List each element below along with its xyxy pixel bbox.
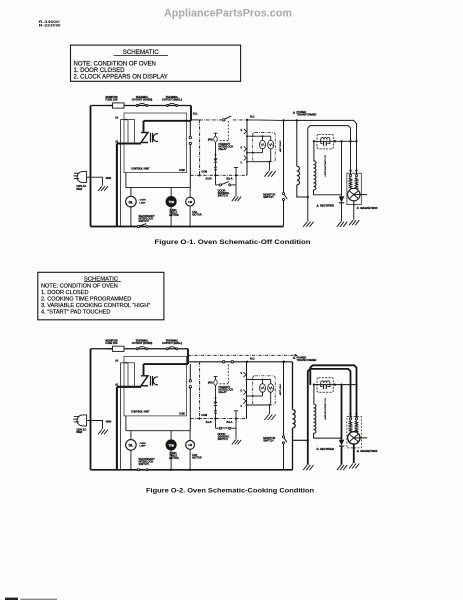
- label MAGNETRON (O-1): [356, 206, 359, 209]
- ground chassis at plug (O-1): [98, 186, 102, 191]
- wire contact column drop (O-1): [246, 120, 248, 175]
- svg-text:CONTROL UNIT: CONTROL UNIT: [131, 167, 150, 170]
- wire bold A1 line (O-1): [117, 142, 141, 144]
- wire lamp ground stem (O-2): [269, 405, 271, 414]
- rectifier diode CR1 (O-1): [341, 141, 343, 196]
- transformer T1 secondary winding (O-2): [313, 385, 315, 405]
- svg-text:4. “START” PAD TOUCHED: 4. “START” PAD TOUCHED: [41, 310, 110, 316]
- wire dash-dot COM drop (O-1): [199, 120, 201, 175]
- svg-text:SCHEMATIC: SCHEMATIC: [123, 49, 160, 56]
- wire primary bottom (O-2): [292, 428, 294, 470]
- svg-text:AppliancePartsPros.com: AppliancePartsPros.com: [164, 7, 292, 19]
- connector terminals on supply drop (O-1): [189, 136, 191, 138]
- svg-text:MAGNETRON: MAGNETRON: [360, 206, 377, 210]
- thermal cutout (oven) (O-1): [136, 105, 138, 107]
- wire magnetron antenna (O-2): [354, 437, 367, 439]
- svg-text:B1-A: B1-A: [227, 177, 233, 181]
- interior lamp 2 (O-2): [268, 384, 274, 393]
- thermal cutout (mag.) (O-1): [166, 105, 168, 107]
- wire bottom rail (O-1): [91, 226, 284, 228]
- wire ground lead GRN (O-2): [91, 421, 102, 430]
- fuse F1 MONITOR FUSE 15A (O-1): [113, 103, 125, 108]
- svg-text:RECTIFIER: RECTIFIER: [320, 204, 334, 208]
- wire lamp feed C (O-2): [247, 404, 270, 406]
- ground at transformer (O-1): [303, 222, 307, 227]
- diode D1 (O-1): [214, 158, 218, 162]
- control unit box (O-2): [124, 356, 187, 416]
- wire magnetron ground stem (O-1): [353, 204, 355, 206]
- diode D2 (O-1): [215, 162, 217, 166]
- svg-text:OL: OL: [129, 444, 134, 448]
- oven lamp OL (O-1): [130, 187, 132, 196]
- wire left supply rail (O-2): [90, 349, 92, 470]
- transformer T1 primary winding (O-1): [296, 120, 298, 166]
- wire relay coil to diodes (O-2): [215, 386, 217, 402]
- HV capacitor assembly box (O-2): [317, 378, 333, 393]
- svg-text:N.O.: N.O.: [250, 358, 255, 360]
- wire thin drop A2 to bottom rail (O-1): [120, 120, 122, 227]
- svg-text:N.O.: N.O.: [193, 114, 198, 116]
- ground at rectifier (O-1): [337, 222, 341, 227]
- label MAGNETRON (O-2): [356, 450, 359, 453]
- thermal cutout (mag.) (O-2): [166, 348, 168, 350]
- page footer fragment: [5, 598, 18, 600]
- wire magnetron ground stem (O-2): [353, 447, 355, 449]
- ground at transformer (O-2): [303, 465, 307, 470]
- interior lamp 2 (O-1): [268, 140, 274, 149]
- fan motor FM (O-2): [189, 431, 191, 441]
- wire lamp feed E (O-1): [247, 135, 263, 137]
- ground at door sensing switch (O-2): [232, 440, 236, 445]
- wire link to relay-contact line (O-1): [191, 119, 200, 121]
- wire secondary bottom (O-2): [314, 433, 342, 438]
- svg-text:MONITORFUSE 15A: MONITORFUSE 15A: [105, 95, 117, 102]
- svg-text:CONTROL UNIT: CONTROL UNIT: [131, 411, 150, 414]
- wire supply drop with connector circles (O-1): [189, 121, 191, 137]
- turntable motor TTM (O-2): [170, 431, 172, 441]
- connector terminal C (O-2): [243, 399, 246, 401]
- door sensing switch (O-1): [215, 175, 217, 185]
- HV bus wire (O-2): [314, 384, 357, 386]
- wire lamp feed C (O-1): [247, 161, 270, 163]
- svg-text:(PH): (PH): [208, 383, 213, 385]
- wire A2 lead (O-1): [121, 119, 129, 121]
- wire to monitor/HV rail (O-2): [246, 361, 248, 363]
- wire lamp ground stem (O-1): [269, 162, 271, 171]
- svg-text:FM: FM: [188, 444, 191, 447]
- wire bold feed to relay coil (O-1): [144, 120, 192, 122]
- transformer T1 primary winding (O-2): [292, 362, 294, 410]
- svg-text:COM: COM: [179, 413, 185, 416]
- label POWER TRANSFORMER (O-1): [293, 111, 296, 114]
- wire lamp feed from control unit (O-2): [126, 416, 190, 431]
- relay contact (open) (O-1): [223, 119, 225, 121]
- note box 1: [71, 45, 241, 81]
- ground at lamp assembly (O-1): [264, 171, 268, 177]
- svg-text:(PH): (PH): [208, 139, 213, 141]
- wire bold left drop to bottom rail (O-2): [116, 387, 118, 471]
- connector terminal E (O-1): [244, 129, 247, 131]
- thermal cutout (oven) (O-2): [136, 348, 138, 350]
- wire COM dash-dot bus (O-1): [191, 174, 248, 176]
- wire relay coil to diodes (O-1): [215, 142, 217, 158]
- svg-text:Figure O-2. Oven Schematic-Coo: Figure O-2. Oven Schematic-Cooking Condi…: [146, 487, 314, 494]
- wire bold feed to relay coil (O-2): [144, 363, 189, 365]
- primary interlock relay coil (PH) (O-1): [215, 133, 217, 136]
- svg-text:RECTIFIER: RECTIFIER: [320, 447, 334, 451]
- svg-text:COM: COM: [179, 169, 185, 172]
- connector terminals on supply drop (O-2): [189, 380, 191, 382]
- lamp assembly dash-dot box (O-1): [253, 133, 276, 162]
- secondary interlock switch (O-1): [137, 225, 139, 227]
- wire top rail (O-1): [91, 105, 192, 107]
- interior lamp 1 (O-2): [260, 384, 266, 393]
- wire ground lead GRN (O-1): [91, 177, 102, 186]
- ground at magnetron (O-2): [349, 464, 353, 469]
- wire top rail (O-2): [91, 348, 189, 350]
- wire left supply rail (O-1): [90, 106, 92, 227]
- interior lamp 1 (O-1): [260, 140, 266, 149]
- wire to monitor/HV rail (O-1): [247, 119, 284, 122]
- svg-text:1. DOOR CLOSED: 1. DOOR CLOSED: [41, 290, 89, 296]
- diode D1 (O-2): [214, 402, 218, 406]
- svg-text:TTM: TTM: [168, 443, 173, 447]
- wire primary bottom (O-1): [297, 185, 308, 197]
- svg-text:OVENLAMP: OVENLAMP: [140, 200, 147, 205]
- label RECTIFIER (O-2): [316, 447, 319, 450]
- connector terminal D (O-1): [244, 146, 247, 148]
- wire drop from top rail (O-2): [187, 349, 189, 364]
- wire contact column drop (O-2): [246, 362, 248, 419]
- wire lamp feed E (O-2): [247, 379, 263, 381]
- ground at lamp assembly (O-2): [264, 415, 268, 421]
- svg-text:D: D: [240, 147, 242, 149]
- wire HV outer run (O-2): [310, 365, 356, 413]
- wire COM drop (O-2): [199, 362, 201, 419]
- svg-text:B1-A: B1-A: [227, 420, 233, 424]
- HV bus wire (O-1): [314, 140, 357, 142]
- svg-text:2. COOKING TIME PROGRAMMED: 2. COOKING TIME PROGRAMMED: [41, 297, 131, 303]
- monitor switch (O-2): [282, 436, 284, 438]
- svg-text:COM: COM: [201, 171, 207, 174]
- svg-text:D: D: [240, 391, 242, 393]
- wire contact line (closed) (O-2): [188, 361, 293, 363]
- wire bold A1 line (O-2): [117, 386, 141, 388]
- wire lamp feed D (O-2): [247, 395, 263, 397]
- wire HV outer run (O-1): [284, 120, 357, 170]
- svg-text:MONITORFUSE 15A: MONITORFUSE 15A: [105, 339, 117, 346]
- mechanical link dashes (O-1): [227, 121, 229, 141]
- connector terminal E (O-2): [243, 372, 246, 374]
- svg-text:1. DOOR CLOSED: 1. DOOR CLOSED: [74, 68, 126, 74]
- wire HV inner run (O-2): [308, 369, 351, 465]
- wire dash-dot contact line (O-1): [200, 119, 223, 121]
- lamp assembly dash-dot box (O-2): [253, 376, 276, 405]
- door sensing switch (O-2): [215, 419, 217, 429]
- wire secondary bottom (O-1): [314, 190, 342, 195]
- svg-text:NOTE: CONDITION OF OVEN: NOTE: CONDITION OF OVEN: [41, 284, 118, 290]
- label RECTIFIER (O-1): [316, 204, 319, 207]
- label POWER TRANSFORMER (O-2): [293, 356, 296, 359]
- turntable motor TTM (O-1): [170, 187, 172, 197]
- svg-text:COM: COM: [201, 414, 207, 417]
- svg-text:A1-B: A1-B: [206, 177, 212, 181]
- AC plug P1 (O-1): [77, 172, 87, 183]
- wire thin drop A2 to bottom rail (O-2): [120, 363, 122, 470]
- svg-text:MAGNETRON: MAGNETRON: [360, 449, 377, 453]
- HV capacitor coil (O-2): [321, 381, 330, 383]
- transformer T1 secondary winding (O-1): [313, 141, 315, 161]
- wire monitor rail (O-1): [283, 120, 285, 192]
- svg-text:C: C: [240, 406, 242, 408]
- AC plug P1 (O-2): [77, 415, 87, 426]
- rectifier diode CR1 (O-2): [341, 385, 343, 440]
- svg-text:R-3330W: R-3330W: [39, 23, 61, 28]
- magnetron V1 (O-2): [349, 413, 351, 415]
- connector terminal C (O-1): [244, 155, 247, 157]
- svg-text:2. CLOCK APPEARS ON DISPLAY: 2. CLOCK APPEARS ON DISPLAY: [74, 75, 168, 81]
- wire dash-dot drive line to transformer (O-2): [188, 354, 294, 356]
- wire diode to COM bus (O-1): [215, 170, 217, 176]
- wire lamp feed D (O-1): [247, 152, 263, 154]
- magnetron V1 (O-1): [349, 169, 351, 171]
- svg-text:Figure O-1. Oven Schematic-Off: Figure O-1. Oven Schematic-Off Condition: [155, 239, 311, 246]
- wire bold left drop to bottom rail (O-1): [116, 144, 118, 228]
- wire monitor rail (O-2): [283, 362, 285, 436]
- relay RY contacts in control unit (O-2): [141, 376, 148, 386]
- HV capacitor assembly box (O-1): [317, 134, 333, 149]
- svg-text:3. VARIABLE COOKING CONTROL “: 3. VARIABLE COOKING CONTROL “HIGH”: [41, 303, 150, 309]
- wire supply drop with connector circles (O-2): [189, 364, 191, 380]
- wire T-drop and ground (O-2): [235, 411, 237, 440]
- control unit box (O-1): [124, 113, 187, 173]
- svg-text:NOTE: CONDITION OF OVEN: NOTE: CONDITION OF OVEN: [74, 61, 156, 67]
- svg-text:C: C: [240, 163, 242, 165]
- svg-text:A1-B: A1-B: [206, 420, 212, 424]
- component noise filter block (O-2): [128, 363, 135, 388]
- wire drop from top rail (O-1): [190, 106, 192, 121]
- relay RY contacts in control unit (O-1): [141, 133, 148, 143]
- wire diode to COM bus (O-2): [215, 413, 217, 419]
- wire bottom rail (O-2): [91, 469, 293, 471]
- HV capacitor coil (O-1): [321, 138, 330, 140]
- connector terminal D (O-2): [243, 390, 246, 392]
- mechanical link dashes (O-2): [227, 364, 229, 384]
- wire T-drop and ground (O-1): [235, 168, 237, 197]
- wire HV inner run (O-1): [308, 126, 351, 222]
- secondary interlock switch (O-2): [137, 469, 139, 471]
- svg-text:GRN: GRN: [106, 177, 112, 180]
- monitor switch (O-1): [282, 193, 284, 195]
- wire lamp feed from control unit (O-1): [126, 173, 190, 188]
- primary interlock relay coil (PH) (O-2): [215, 377, 217, 380]
- oven lamp OL (O-2): [130, 431, 132, 440]
- fan motor FM (O-1): [189, 187, 191, 197]
- wire COM dash-dot bus (O-2): [191, 418, 248, 420]
- ground at rectifier (O-2): [337, 465, 341, 470]
- HV capacitor plates (O-1): [321, 140, 323, 144]
- relay contact (closed) (O-2): [223, 361, 225, 363]
- ground chassis at plug (O-2): [98, 430, 102, 435]
- svg-text:FM: FM: [188, 201, 191, 204]
- note box 2: [38, 272, 164, 320]
- svg-text:GRN: GRN: [106, 421, 112, 424]
- svg-text:OL: OL: [129, 200, 134, 204]
- HV capacitor plates (O-2): [321, 383, 323, 387]
- wire magnetron antenna (O-1): [354, 194, 367, 196]
- wire A2 lead (O-2): [121, 362, 129, 364]
- ground at magnetron (O-1): [349, 220, 353, 225]
- diode D2 (O-2): [215, 406, 217, 410]
- svg-text:TTM: TTM: [168, 200, 173, 204]
- fuse F1 MONITOR FUSE 15A (O-2): [113, 346, 125, 351]
- svg-text:N.O.: N.O.: [250, 116, 255, 118]
- component noise filter block (O-1): [128, 120, 135, 145]
- svg-text:OVENLAMP: OVENLAMP: [140, 443, 147, 448]
- ground at door sensing switch (O-1): [232, 197, 236, 202]
